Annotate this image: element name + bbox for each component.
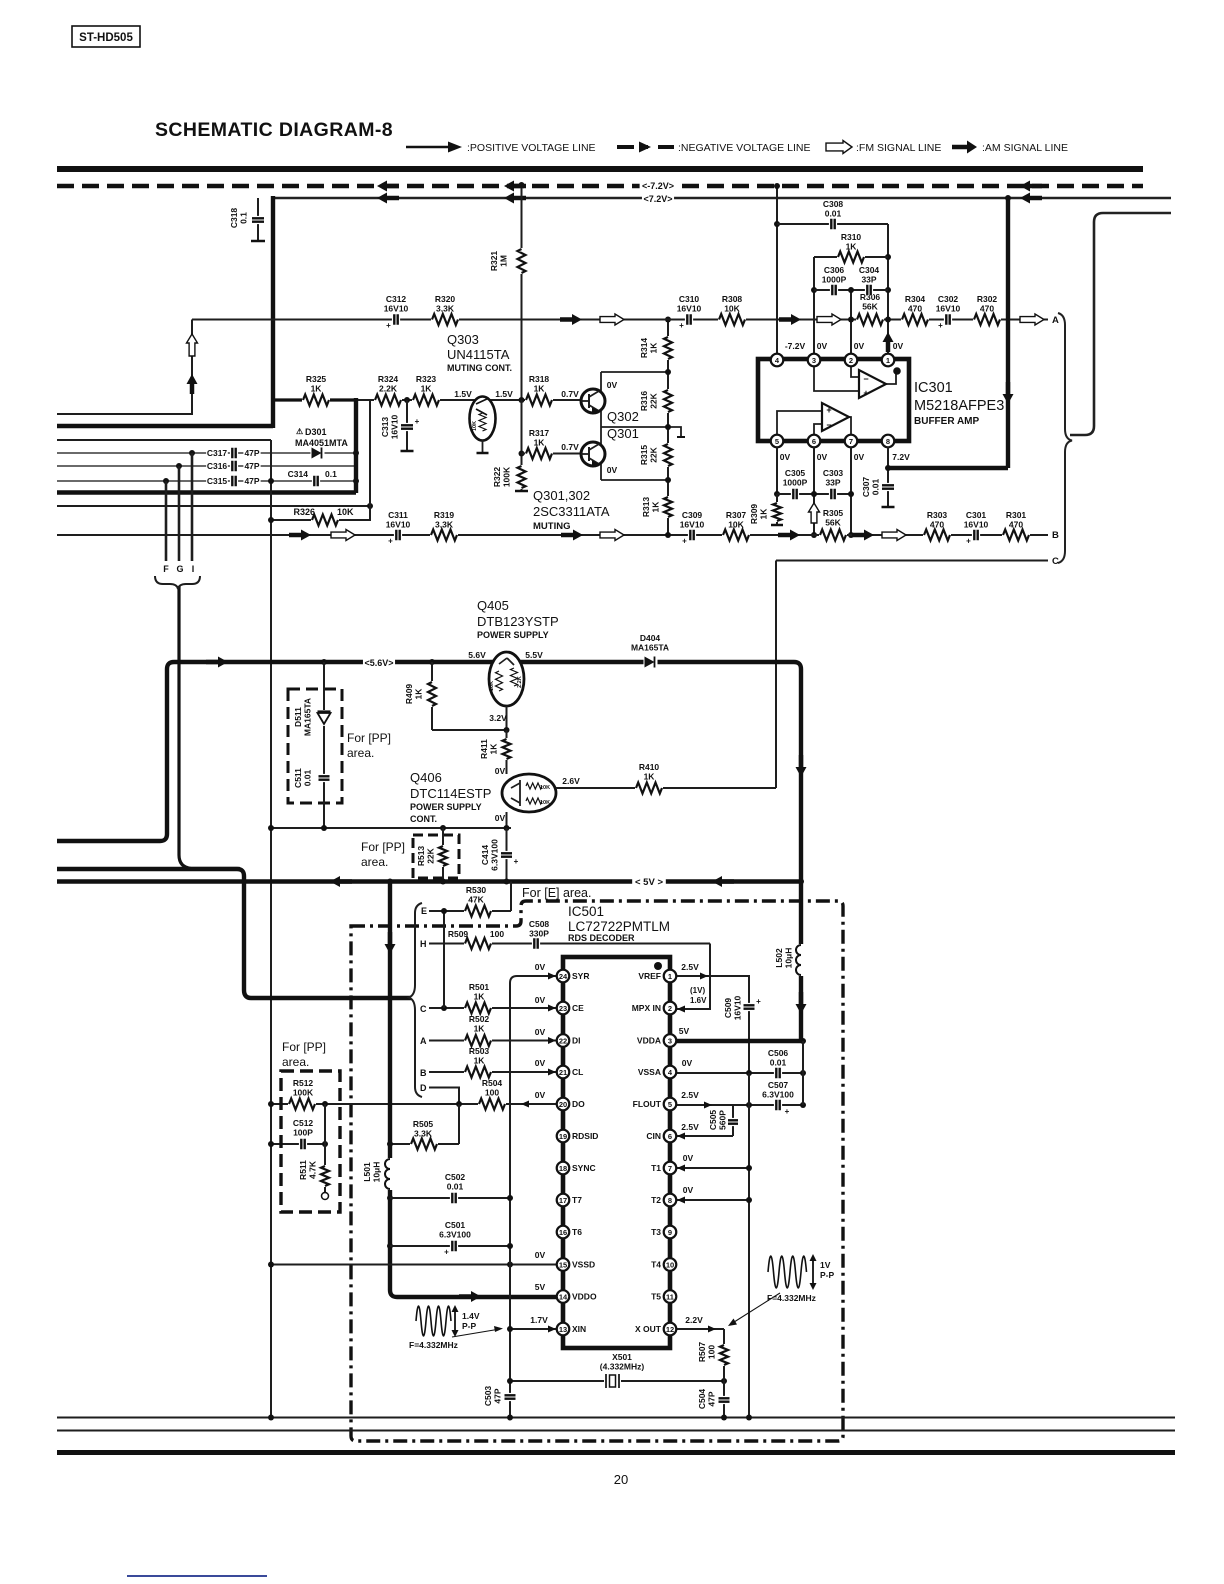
IC301 pin 6	[808, 435, 821, 448]
wire frame top	[601, 371, 668, 373]
svg-text:+: +	[682, 537, 687, 546]
FM arrow to node A	[1020, 314, 1044, 325]
wire pin2 vertical x851	[850, 290, 852, 360]
transistor Q301	[581, 442, 605, 466]
capacitor C509 electrolytic	[744, 1003, 755, 1011]
svg-text:0.01: 0.01	[871, 478, 881, 495]
wire Q406 base to R410	[556, 787, 776, 789]
wire left stub y506	[57, 505, 370, 507]
svg-text:2.2K: 2.2K	[379, 384, 398, 394]
wire top heavy bus line	[57, 166, 1143, 172]
dashed area box D511/C511 For PP	[288, 689, 342, 803]
junctions bottom bus	[268, 1415, 274, 1421]
svg-text:XIN: XIN	[572, 1324, 586, 1334]
svg-text:47K: 47K	[468, 895, 484, 905]
svg-text:6: 6	[668, 1132, 672, 1141]
svg-text:D511: D511	[293, 707, 303, 727]
wire C306/C304 row	[814, 289, 888, 291]
svg-text:ST-HD505: ST-HD505	[79, 32, 133, 44]
node label -7.2V	[640, 180, 677, 193]
wire E to C vertical	[443, 911, 445, 1008]
svg-text:area.: area.	[361, 855, 388, 869]
svg-text:13: 13	[559, 1325, 567, 1334]
svg-text:VSSA: VSSA	[638, 1067, 661, 1077]
svg-text:R309: R309	[749, 504, 759, 525]
svg-text:CONT.: CONT.	[410, 814, 437, 824]
wire FGI drop line	[179, 586, 240, 869]
resistor R308	[718, 313, 746, 327]
svg-text:0V: 0V	[535, 1250, 546, 1260]
wire XIN row	[510, 1328, 557, 1330]
wire bottom bus line 2	[57, 1430, 1175, 1432]
junction	[665, 424, 671, 430]
svg-text:VDDO: VDDO	[572, 1292, 597, 1302]
svg-text:C316: C316	[207, 461, 228, 471]
wire pin7 vertical below	[850, 447, 852, 535]
svg-text:0V: 0V	[495, 813, 506, 823]
svg-text:<-7.2V>: <-7.2V>	[642, 181, 674, 191]
resistor R306	[856, 313, 884, 327]
IC501 pin 16 T6	[557, 1226, 570, 1239]
IC501 pin 20 DO	[557, 1098, 570, 1111]
svg-text:1K: 1K	[651, 501, 661, 513]
wire T1 row	[677, 1167, 749, 1169]
svg-text:47P: 47P	[707, 1391, 717, 1406]
svg-text:MPX IN: MPX IN	[632, 1003, 661, 1013]
svg-text:1.5V: 1.5V	[454, 389, 472, 399]
svg-text:P-P: P-P	[462, 1321, 477, 1331]
wire SYR feed vertical x510	[510, 976, 557, 1418]
arrow right on 5.6V line	[218, 657, 228, 668]
IC301 pin 4	[771, 354, 784, 367]
AM arrow up into pin1 node	[883, 332, 894, 342]
junction	[665, 317, 671, 323]
arrow down on 7.2V drop	[1003, 394, 1014, 404]
wire VREF row	[670, 976, 749, 1073]
svg-text:R509: R509	[448, 929, 469, 939]
op-amp U1b wires	[777, 411, 822, 434]
svg-text:330P: 330P	[529, 929, 549, 939]
svg-text:10: 10	[666, 1260, 674, 1269]
svg-text:5: 5	[668, 1100, 672, 1109]
pointer arrow to X OUT	[731, 1293, 780, 1324]
wire VSSA row	[670, 1072, 803, 1074]
wire frame bottom	[601, 479, 668, 481]
IC501 pin 21 CL	[557, 1066, 570, 1079]
wire signal line A y319	[628, 319, 1048, 321]
wire long vertical x271	[270, 440, 272, 1418]
resistor R316	[663, 389, 674, 413]
svg-text:0V: 0V	[682, 1058, 693, 1068]
sine wave annotation left 1.4V P-P	[416, 1306, 451, 1336]
svg-text:R322: R322	[492, 467, 502, 488]
svg-text:C302: C302	[938, 294, 959, 304]
svg-text:POWER SUPPLY: POWER SUPPLY	[477, 630, 549, 640]
wire D511 branch x324	[323, 662, 325, 828]
capacitor C502	[450, 1193, 458, 1204]
IC501 pin 12 X OUT	[664, 1323, 677, 1336]
dashed area box R512/C512/R511 For PP	[281, 1071, 340, 1212]
resistor R310	[837, 250, 865, 264]
svg-text:0V: 0V	[535, 962, 546, 972]
svg-text:T2: T2	[651, 1195, 661, 1205]
svg-text:T5: T5	[651, 1292, 661, 1302]
arrow down on 5V drop	[385, 944, 396, 954]
svg-text:16V10: 16V10	[680, 520, 705, 530]
svg-text:100: 100	[707, 1345, 717, 1359]
resistor R309 to bar	[776, 494, 778, 524]
arrow on -7.2V bus	[504, 181, 514, 192]
svg-text:5.5V: 5.5V	[525, 650, 543, 660]
svg-text:C502: C502	[445, 1172, 466, 1182]
svg-text:MA165TA: MA165TA	[303, 698, 313, 736]
IC301 pin 8	[882, 435, 895, 448]
svg-text:R409: R409	[404, 684, 414, 705]
wire power drop x801 D404 to VDDA	[799, 882, 803, 1042]
wire G tap	[178, 466, 181, 561]
svg-text:2SC3311ATA: 2SC3311ATA	[533, 504, 610, 519]
svg-text:C318: C318	[229, 208, 239, 229]
wire 5V bus y881	[57, 879, 801, 883]
svg-text:(1V): (1V)	[690, 986, 705, 995]
IC501 pin 9 T3	[664, 1226, 677, 1239]
wire row C317 with D301	[57, 452, 356, 454]
wire DO row with R512 R504	[271, 1103, 557, 1105]
svg-text:(4.332MHz): (4.332MHz)	[600, 1362, 645, 1372]
AM arrow on muting line	[572, 314, 582, 325]
junction R409 tap	[429, 659, 435, 665]
svg-text:3.3K: 3.3K	[435, 520, 454, 530]
IC301 pin 7	[845, 435, 858, 448]
capacitor C306	[830, 285, 838, 296]
svg-text:2.5V: 2.5V	[681, 1122, 699, 1132]
svg-text:10K: 10K	[489, 681, 495, 691]
svg-text:C308: C308	[823, 199, 844, 209]
svg-text:1.4V: 1.4V	[462, 1311, 480, 1321]
svg-text:33P: 33P	[825, 478, 840, 488]
svg-text:5V: 5V	[679, 1026, 690, 1036]
arrow left on 5V bus	[330, 876, 340, 887]
svg-text:Q302: Q302	[607, 409, 639, 424]
resistor R322 vertical	[521, 400, 523, 490]
IC501 pin 1 VREF	[664, 970, 677, 983]
svg-text:10μH: 10μH	[784, 948, 794, 969]
wire pin5 vertical below	[776, 447, 778, 494]
svg-text:8: 8	[886, 437, 890, 446]
svg-text:3: 3	[812, 356, 816, 365]
svg-text:C305: C305	[785, 468, 806, 478]
wire 7.2V trunk corner x273	[271, 196, 275, 428]
svg-text:19: 19	[559, 1132, 567, 1141]
IC501 pin 22 DI	[557, 1034, 570, 1047]
junction base node x521	[519, 397, 525, 403]
svg-text:R301: R301	[1006, 510, 1027, 520]
footer blue mark	[127, 1575, 267, 1577]
svg-text:C508: C508	[529, 919, 550, 929]
resistor R410	[635, 781, 663, 795]
arrow down on power drop x801	[796, 767, 807, 777]
wire thick 7.2V feed to pin8	[886, 466, 1008, 470]
capacitor C504	[723, 1381, 725, 1417]
svg-text:R530: R530	[466, 885, 487, 895]
op-amp IC301 box	[758, 359, 909, 441]
capacitor C315	[230, 476, 238, 487]
capacitor C318	[257, 198, 259, 240]
svg-text:2.2V: 2.2V	[685, 1315, 703, 1325]
IC501 pin 17 T7	[557, 1194, 570, 1207]
sine wave annotation right 1V P-P	[768, 1256, 807, 1288]
svg-text:3.3K: 3.3K	[436, 304, 455, 314]
wire C305/C303 row	[777, 493, 851, 495]
svg-text:−: −	[826, 420, 831, 430]
svg-text:C512: C512	[293, 1118, 314, 1128]
svg-text:C313: C313	[380, 417, 390, 438]
svg-text:+: +	[444, 1248, 449, 1257]
svg-text:1.5V: 1.5V	[495, 389, 513, 399]
wire frame middle	[601, 426, 668, 428]
svg-text:CL: CL	[572, 1067, 583, 1077]
svg-text:100K: 100K	[502, 466, 512, 487]
resistor R507	[723, 1329, 725, 1381]
svg-text:1K: 1K	[421, 384, 433, 394]
wire I tap	[191, 453, 194, 561]
capacitor C505	[732, 1105, 734, 1136]
wire left stub y440	[57, 439, 271, 441]
svg-text:R320: R320	[435, 294, 456, 304]
svg-text:2.5V: 2.5V	[681, 1090, 699, 1100]
svg-text:C303: C303	[823, 468, 844, 478]
svg-text:14: 14	[559, 1292, 568, 1301]
svg-text:1K: 1K	[644, 772, 656, 782]
svg-text:L501: L501	[362, 1162, 372, 1182]
svg-text:FLOUT: FLOUT	[633, 1099, 662, 1109]
svg-text:0V: 0V	[854, 341, 865, 351]
svg-text:R513: R513	[416, 846, 426, 867]
wire row C315 C314	[57, 480, 356, 482]
node label 7.2V	[642, 193, 674, 206]
svg-text:5V: 5V	[535, 1282, 546, 1292]
svg-text:R304: R304	[905, 294, 926, 304]
capacitor C316	[230, 461, 238, 472]
svg-text:+: +	[514, 857, 519, 866]
ground stub near Q301	[668, 427, 681, 436]
wire pin3 vertical x814	[813, 257, 815, 360]
svg-text:R318: R318	[529, 374, 550, 384]
svg-text:12: 12	[666, 1325, 674, 1334]
resistor R321 vertical from -7.2V bus	[521, 185, 523, 400]
capacitor C304	[865, 285, 873, 296]
wire R310 row	[814, 256, 888, 258]
svg-text:6.3V100: 6.3V100	[439, 1230, 471, 1240]
svg-text:For [E] area.: For [E] area.	[522, 886, 591, 900]
svg-text:< 5V >: < 5V >	[635, 877, 663, 888]
AM arrow up on vertical	[187, 374, 198, 384]
svg-text:16V10: 16V10	[733, 995, 743, 1020]
svg-text:R308: R308	[722, 294, 743, 304]
svg-text:C309: C309	[682, 510, 703, 520]
svg-text:C509: C509	[723, 998, 733, 1019]
inductor L501	[384, 1158, 393, 1190]
svg-text:R323: R323	[416, 374, 437, 384]
svg-text:X OUT: X OUT	[635, 1324, 662, 1334]
capacitor C311 electrolytic	[394, 530, 402, 541]
svg-text:D: D	[420, 1083, 427, 1093]
svg-text:16V10: 16V10	[386, 520, 411, 530]
svg-text:1K: 1K	[474, 1056, 486, 1066]
FM arrow up on pin6 vertical	[809, 503, 820, 523]
arrow on -7.2V bus	[377, 181, 387, 192]
svg-text:R507: R507	[697, 1342, 707, 1363]
svg-text:10K: 10K	[472, 421, 478, 431]
svg-text:R315: R315	[639, 445, 649, 466]
svg-text:100K: 100K	[293, 1088, 314, 1098]
capacitor C511	[319, 774, 330, 782]
digital transistor Q405	[489, 652, 524, 706]
svg-text:3.3K: 3.3K	[414, 1129, 433, 1139]
IC501 pin 7 T1	[664, 1162, 677, 1175]
svg-text:0V: 0V	[817, 341, 828, 351]
IC501 pin 23 CE	[557, 1002, 570, 1015]
resistor R513	[442, 828, 444, 881]
svg-text:47P: 47P	[244, 476, 259, 486]
wire Q302/Q301 frame left rail	[600, 372, 602, 480]
svg-text:3.2V: 3.2V	[489, 713, 507, 723]
svg-text:+: +	[826, 405, 831, 415]
model label box ST-HD505	[72, 26, 140, 47]
svg-text:Q301,302: Q301,302	[533, 488, 590, 503]
svg-text:POWER SUPPLY: POWER SUPPLY	[410, 802, 482, 812]
AM arrow	[864, 530, 874, 541]
IC IC501 LC72722PMTLM box	[563, 957, 670, 1348]
label 5.6V bus	[363, 657, 395, 670]
svg-text:1K: 1K	[474, 1024, 486, 1034]
resistor R305	[819, 528, 847, 542]
svg-text:DTC114ESTP: DTC114ESTP	[410, 786, 491, 801]
diode D404	[644, 656, 658, 669]
svg-text:F=4.332MHz: F=4.332MHz	[409, 1340, 458, 1350]
junction dots on D301 box edge	[353, 450, 359, 456]
svg-text:+: +	[679, 321, 684, 330]
wire base node y730	[432, 729, 507, 731]
svg-text:20: 20	[614, 1472, 628, 1487]
svg-text:DI: DI	[572, 1036, 581, 1046]
IC501 pin 8 T2	[664, 1194, 677, 1207]
svg-text:A: A	[1052, 315, 1059, 326]
resistor R320	[431, 313, 459, 327]
resistor R304	[901, 313, 929, 327]
svg-text:1K: 1K	[474, 992, 486, 1002]
svg-text:+: +	[938, 321, 943, 330]
svg-text:10K: 10K	[540, 800, 550, 806]
IC501 pin 2 MPX IN	[664, 1002, 677, 1015]
svg-text:UN4115TA: UN4115TA	[447, 347, 510, 362]
wire 5.6V feed from left edge	[57, 662, 801, 881]
svg-text:C310: C310	[679, 294, 700, 304]
svg-text:R303: R303	[927, 510, 948, 520]
svg-text:10K: 10K	[724, 304, 740, 314]
dash-dot boundary For E area	[351, 901, 843, 1441]
svg-text:C511: C511	[293, 768, 303, 788]
svg-text:1000P: 1000P	[822, 275, 847, 285]
wire Q303 base line y400	[358, 399, 581, 401]
svg-text:R324: R324	[378, 374, 399, 384]
brace E H C A B D	[409, 903, 422, 1097]
svg-text:R319: R319	[434, 510, 455, 520]
svg-text:10K: 10K	[540, 785, 550, 791]
resistor R325	[302, 393, 330, 407]
FM arrow on muting line	[600, 314, 624, 325]
capacitor C503	[505, 1393, 516, 1401]
svg-text:T1: T1	[651, 1163, 661, 1173]
svg-text:100P: 100P	[293, 1128, 313, 1138]
svg-text:<5.6V>: <5.6V>	[364, 658, 393, 668]
svg-text:1.7V: 1.7V	[530, 1315, 548, 1325]
svg-text:2.5V: 2.5V	[681, 962, 699, 972]
resistor R326	[311, 513, 339, 527]
svg-text:1K: 1K	[759, 508, 769, 520]
svg-text:10K: 10K	[728, 520, 744, 530]
wire F tap	[165, 481, 168, 561]
capacitor C301 electrolytic	[972, 530, 980, 541]
wire x749 down	[748, 1073, 750, 1417]
svg-text:R310: R310	[841, 232, 862, 242]
svg-text:470: 470	[908, 304, 922, 314]
svg-text::FM SIGNAL LINE: :FM SIGNAL LINE	[856, 142, 941, 154]
svg-text:1.6V: 1.6V	[690, 996, 707, 1005]
resistor R313	[663, 496, 674, 518]
svg-text:56K: 56K	[825, 518, 841, 528]
brace F G I	[155, 576, 200, 589]
svg-text:21: 21	[559, 1068, 567, 1077]
arrow down to VDDA	[796, 1004, 807, 1014]
legend AM signal line	[967, 141, 977, 154]
IC501 pin 18 SYNC	[557, 1162, 570, 1175]
svg-text:1K: 1K	[846, 242, 858, 252]
resistor R323	[412, 393, 440, 407]
svg-text:47P: 47P	[493, 1388, 503, 1403]
svg-text:0.01: 0.01	[447, 1182, 464, 1192]
junction pin8	[885, 465, 891, 471]
svg-text:+: +	[388, 537, 393, 546]
svg-text:T4: T4	[651, 1260, 661, 1270]
svg-text:VDDA: VDDA	[637, 1036, 661, 1046]
junction dots F G I taps	[189, 450, 195, 456]
svg-text:C315: C315	[207, 476, 228, 486]
resistor R301	[1002, 528, 1030, 542]
resistor R302	[973, 313, 1001, 327]
svg-text:R511: R511	[298, 1160, 308, 1180]
FM arrow	[331, 530, 355, 541]
svg-text:0V: 0V	[854, 452, 865, 462]
wire VSSD row 0V	[271, 1264, 557, 1266]
capacitor C303	[829, 489, 837, 500]
svg-text:1M: 1M	[499, 255, 509, 267]
svg-text:22: 22	[559, 1036, 567, 1045]
IC301 pin 5	[771, 435, 784, 448]
wire pin6 vertical below	[813, 447, 815, 535]
svg-text:C314: C314	[288, 469, 309, 479]
capacitor C305	[791, 489, 799, 500]
svg-text:IC301: IC301	[914, 380, 953, 396]
svg-text:0.01: 0.01	[303, 769, 313, 786]
svg-text:C507: C507	[768, 1080, 789, 1090]
resistor R512	[288, 1097, 316, 1111]
capacitor C313 electrolytic	[406, 400, 408, 450]
svg-text:24: 24	[559, 972, 568, 981]
junction R313	[665, 532, 671, 538]
resistor R303	[923, 528, 951, 542]
svg-text:1K: 1K	[649, 342, 659, 354]
